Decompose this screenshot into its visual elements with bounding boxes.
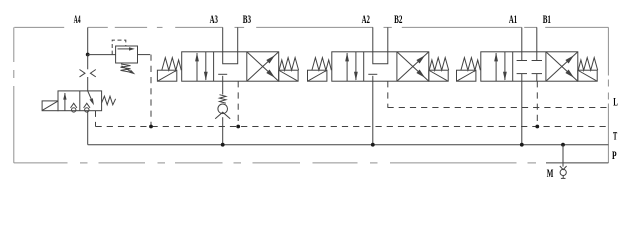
svg-text:A3: A3 [210, 14, 218, 26]
valve V3: A port line [222, 27, 224, 51]
valve V3: left solenoid with spring [157, 70, 176, 81]
wire: M tap line [562, 145, 564, 167]
check valve spring [220, 95, 226, 104]
wire: A4 to orifice [87, 55, 89, 70]
unloading valve: vent right [85, 108, 89, 112]
svg-text:B3: B3 [243, 14, 251, 26]
valve V1: left solenoid with spring [457, 70, 476, 81]
valve V2: A port line [372, 27, 374, 51]
wire: valve V2 P line down [372, 81, 374, 145]
valve V3: B port line [237, 27, 239, 51]
wire: check valve to T gallery [222, 117, 224, 145]
wire: A4 port line [87, 27, 89, 54]
valve V3: centre position A-B joined, P blocked [223, 52, 238, 64]
wire: A4 junction to relief inlet [88, 54, 116, 56]
check valve seat [215, 112, 230, 119]
svg-text:L: L [613, 95, 618, 109]
node: V1 P at gallery [520, 143, 524, 147]
wire: valve V1 P line down [521, 81, 523, 145]
wire: valve V2 drain dashed to L [387, 81, 389, 107]
relief valve RV: spring [121, 64, 131, 72]
relief valve RV: pilot dashed loop [112, 40, 126, 55]
wire: relief outlet [138, 54, 145, 56]
unloading valve: right position diagonal [88, 91, 93, 101]
svg-text:P: P [612, 148, 617, 162]
svg-text:A1: A1 [509, 14, 517, 26]
svg-text:M: M [547, 166, 554, 180]
valve V3: right solenoid with spring [279, 70, 298, 81]
node: V3 drain at lower gallery [236, 125, 240, 129]
valve V2: right solenoid with spring [429, 70, 448, 81]
valve V1: left position P->A B->T arrows [495, 53, 497, 81]
wire: valve V1 drain dashed [536, 81, 538, 126]
valve V3: 4/3 solenoid directional valve body [182, 52, 279, 81]
subplate boundary: left chain line [13, 27, 15, 62]
subplate boundary: top chain line [14, 26, 64, 28]
wire: lower drain dashed gallery [96, 126, 609, 128]
node: M tap on gallery [561, 143, 565, 147]
wire: T gallery solid line [88, 144, 609, 146]
subplate boundary: bottom chain line [14, 162, 68, 164]
wire: valve V3 drain dashed [237, 81, 239, 126]
valve V2: left position P->A B->T arrows [346, 53, 348, 81]
valve V3: left position P->A B->T arrows [196, 53, 198, 81]
valve V1: B port line [536, 27, 538, 51]
measuring point M symbol [560, 166, 567, 170]
valve V2: left solenoid with spring [308, 70, 327, 81]
valve V1: centre position all ports blocked [521, 52, 523, 61]
unloading valve: vent left [72, 108, 76, 112]
unloading valve: solenoid [42, 101, 58, 111]
node: V1 drain at lower gallery [535, 125, 539, 129]
node: V2 P at gallery [371, 143, 375, 147]
wire: unloading valve out to T gallery [87, 111, 89, 145]
svg-text:T: T [613, 129, 617, 143]
valve V1: right position crossed arrows [546, 52, 578, 81]
subplate boundary: right edge / port bus [607, 27, 609, 75]
wire: valve V3 P line down [222, 81, 224, 94]
node: A4 junction [86, 53, 90, 57]
node: V3 P at gallery [221, 143, 225, 147]
valve V1: right solenoid with spring [578, 70, 597, 81]
node: relief drain at lower gallery [149, 125, 153, 129]
wire: P port solid segment [546, 162, 608, 164]
valve V1: 4/3 solenoid directional valve body [481, 52, 578, 81]
orifice (restrictor) [80, 70, 86, 77]
valve V2: right position crossed arrows [397, 52, 429, 81]
unloading valve: body [58, 91, 102, 111]
valve V3: right position crossed arrows [247, 52, 279, 81]
relief valve RV: flow arrow [118, 48, 132, 50]
relief valve RV: body [116, 46, 138, 63]
svg-text:A4: A4 [74, 14, 81, 26]
relief valve RV: adjustment arrow [122, 66, 133, 73]
unloading valve: left position arrow [64, 93, 66, 111]
valve V2: B port line [387, 27, 389, 51]
check valve ball [218, 104, 228, 114]
svg-text:B2: B2 [394, 14, 402, 26]
svg-text:A2: A2 [362, 14, 370, 26]
unloading valve: spring [102, 96, 116, 105]
valve V2: 4/3 solenoid directional valve body [332, 52, 429, 81]
wire: unloading valve drain to lower dashed gallery [95, 111, 97, 127]
wire: L drain dashed gallery [388, 107, 609, 109]
valve V2: centre position A-B joined, P blocked [373, 52, 388, 64]
valve V1: A port line [521, 27, 523, 51]
svg-text:B1: B1 [543, 14, 551, 26]
